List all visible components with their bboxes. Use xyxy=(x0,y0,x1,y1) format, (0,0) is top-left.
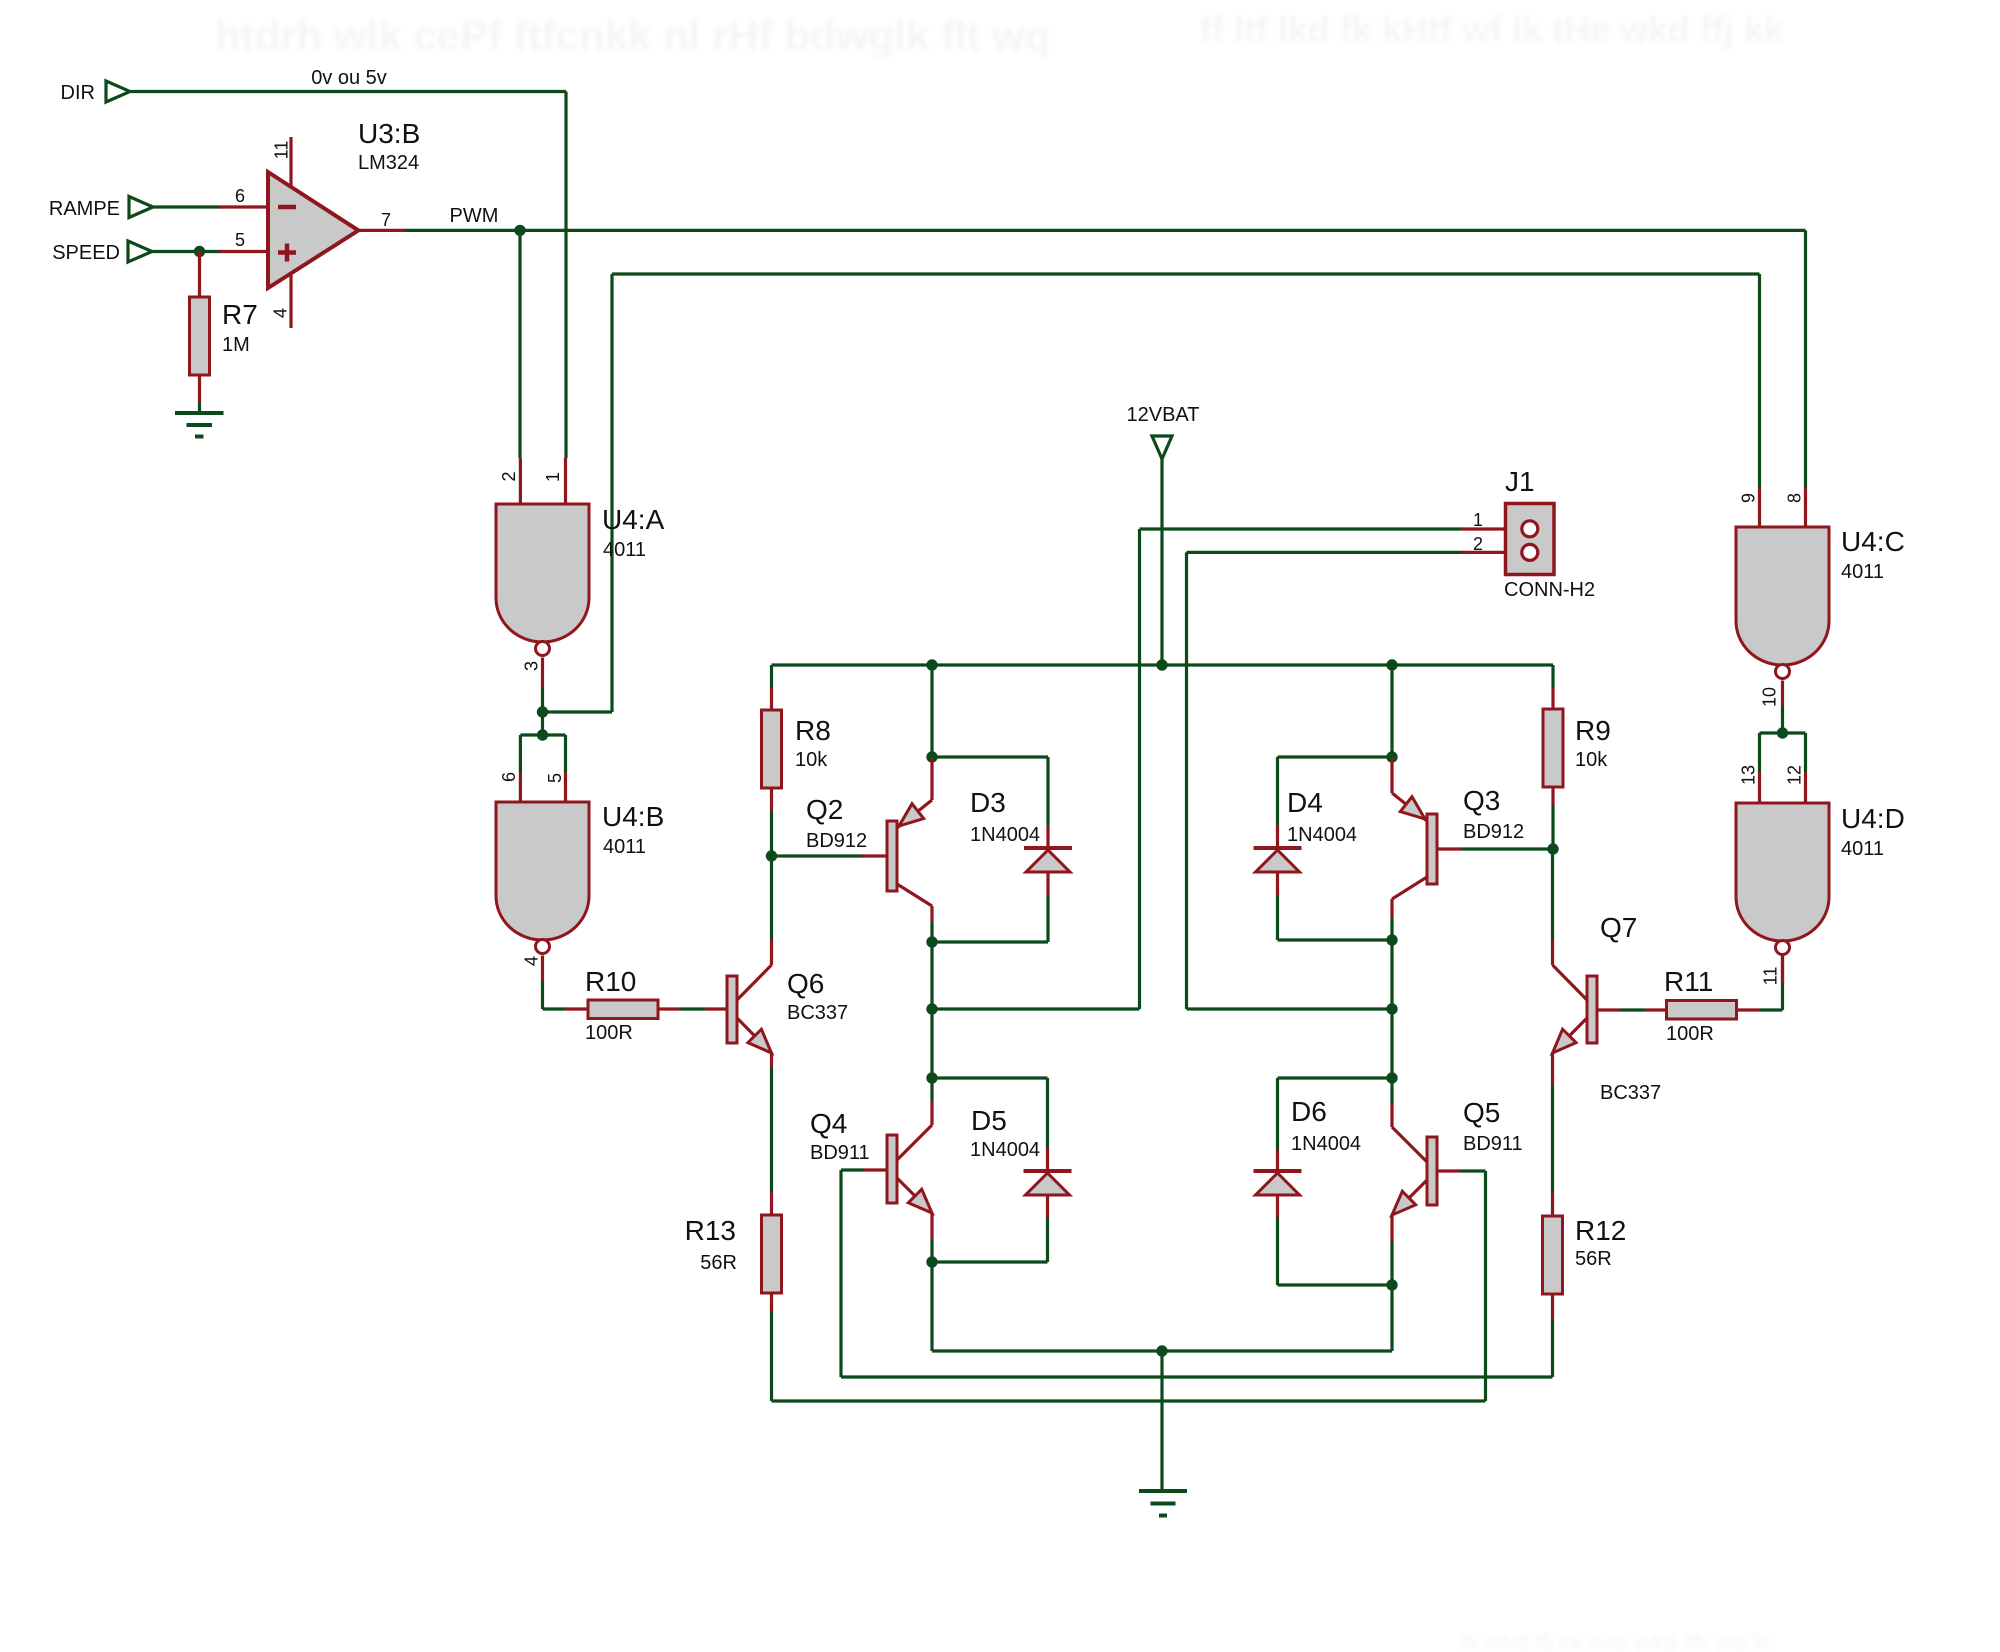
svg-text:R11: R11 xyxy=(1664,966,1713,997)
wire Q7 emitter to R12 xyxy=(1551,1053,1554,1192)
svg-text:U4:A: U4:A xyxy=(602,504,665,535)
svg-text:R13: R13 xyxy=(685,1215,736,1246)
wire ground stem xyxy=(1160,1351,1163,1489)
svg-text:D4: D4 xyxy=(1287,787,1323,818)
junction SPEED/R7 xyxy=(194,246,205,257)
resistor R10 xyxy=(566,966,658,1044)
wire Q3 collector node xyxy=(1390,918,1393,1078)
wire Q6 emitter to R13 xyxy=(770,1053,773,1191)
svg-text:R10: R10 xyxy=(585,966,636,997)
svg-text:J1: J1 xyxy=(1505,466,1535,497)
wire U4:A out to U4:B inputs xyxy=(520,712,565,772)
svg-text:Q3: Q3 xyxy=(1463,785,1500,816)
svg-text:2: 2 xyxy=(499,471,519,481)
wire U4:B pin 4 to R10 xyxy=(543,982,567,1009)
NAND gate U4:B xyxy=(496,772,664,982)
svg-text:Q4: Q4 xyxy=(810,1108,847,1139)
transistor Q2 (BD912) xyxy=(806,757,932,922)
transistor Q3 (BD912) xyxy=(1392,757,1524,918)
svg-text:ff ltf lkd fk kHtf wf lk tHe w: ff ltf lkd fk kHtf wf lk tHe wkd ffj kk xyxy=(1200,9,1785,50)
svg-text:Q5: Q5 xyxy=(1463,1097,1500,1128)
wire U4:C pin 10 to node xyxy=(1781,706,1784,733)
svg-text:BD912: BD912 xyxy=(1463,821,1524,843)
svg-text:DIR: DIR xyxy=(61,82,95,104)
svg-text:2: 2 xyxy=(1473,534,1483,554)
svg-text:4011: 4011 xyxy=(1841,838,1884,860)
svg-text:BD912: BD912 xyxy=(806,830,867,852)
connector J1 (CONN-H2) xyxy=(1461,466,1595,601)
svg-text:1N4004: 1N4004 xyxy=(1287,824,1357,846)
junction U4:D input tie xyxy=(1777,727,1788,738)
svg-text:56R: 56R xyxy=(1575,1248,1612,1270)
junction rail/Q3 emitter xyxy=(1386,659,1397,670)
resistor R8 xyxy=(762,665,831,856)
junction R9/Q3 base/Q7 collector xyxy=(1547,843,1558,854)
junction Q4 emitter/D5 xyxy=(926,1256,937,1267)
wire Q6 collector xyxy=(770,856,773,965)
svg-text:12: 12 xyxy=(1784,765,1804,785)
junction ground row xyxy=(1156,1345,1167,1356)
svg-text:htdrh wlk cePf ftfcnkk nl rHf: htdrh wlk cePf ftfcnkk nl rHf bdwglk flt… xyxy=(215,12,1050,59)
svg-text:CONN-H2: CONN-H2 xyxy=(1504,579,1595,601)
resistor R13 xyxy=(685,1191,782,1401)
svg-text:5: 5 xyxy=(235,230,245,250)
diode D6 (1N4004) xyxy=(1254,1078,1393,1285)
junction Q3/D4 bottom xyxy=(1386,934,1397,945)
junction D6 top tap xyxy=(1386,1072,1397,1083)
wire U4:C out to U4:D inputs xyxy=(1760,733,1806,772)
wire Q4 emitter to ground row xyxy=(930,1240,933,1351)
resistor R12 xyxy=(1543,1192,1627,1319)
ground (main) xyxy=(1139,1491,1187,1516)
svg-text:1: 1 xyxy=(1473,510,1483,530)
wire PWM to U4:A pin 2 xyxy=(518,230,521,458)
svg-text:1N4004: 1N4004 xyxy=(970,824,1040,846)
svg-text:U4:B: U4:B xyxy=(602,801,664,832)
wire row B (R12 to Q4 base) xyxy=(841,1319,1553,1377)
svg-text:4011: 4011 xyxy=(603,836,646,858)
diode D4 (1N4004) xyxy=(1254,757,1393,940)
svg-text:1N4004: 1N4004 xyxy=(1291,1133,1361,1155)
wire Q2 collector node xyxy=(930,922,933,1078)
svg-text:7: 7 xyxy=(381,210,391,230)
resistor R11 xyxy=(1664,966,1737,1045)
wire SPEED to pin 5 xyxy=(152,250,222,253)
svg-text:56R: 56R xyxy=(700,1252,737,1274)
svg-text:D3: D3 xyxy=(970,787,1006,818)
junction R8/Q2 base/Q6 collector xyxy=(766,850,777,861)
wire rail to Q2 emitter xyxy=(930,665,933,757)
junction left output node xyxy=(926,1003,937,1014)
junction Q5 emitter/D6 xyxy=(1386,1279,1397,1290)
svg-text:R8: R8 xyxy=(795,715,831,746)
svg-text:100R: 100R xyxy=(585,1022,633,1044)
wire U4:A pin 3 to node xyxy=(541,687,544,712)
wire Q7 collector xyxy=(1551,849,1554,965)
wire Q4 base xyxy=(841,1168,887,1171)
input flag SPEED xyxy=(52,241,152,264)
svg-text:Q7: Q7 xyxy=(1600,912,1637,943)
junction rail/Q2 emitter xyxy=(926,659,937,670)
svg-text:3: 3 xyxy=(521,661,541,671)
svg-text:4011: 4011 xyxy=(603,539,646,561)
svg-text:8: 8 xyxy=(1784,493,1804,503)
NAND gate U4:C xyxy=(1736,487,1905,707)
svg-text:BC337: BC337 xyxy=(1600,1082,1661,1104)
svg-text:12VBAT: 12VBAT xyxy=(1127,404,1200,426)
wire left output to J1 pin1 xyxy=(932,529,1461,1009)
NAND gate U4:D xyxy=(1736,765,1905,983)
svg-text:BD911: BD911 xyxy=(810,1142,870,1164)
svg-text:D5: D5 xyxy=(971,1105,1007,1136)
svg-text:10: 10 xyxy=(1759,687,1779,707)
junction U4:B input tie xyxy=(537,729,548,740)
transistor Q6 (BC337) xyxy=(727,965,848,1053)
label PWM xyxy=(450,205,499,227)
watermark (faint) xyxy=(215,9,1785,1652)
svg-text:R9: R9 xyxy=(1575,715,1611,746)
input flag DIR xyxy=(61,81,130,104)
svg-text:R7: R7 xyxy=(222,299,258,330)
svg-text:6: 6 xyxy=(499,772,519,782)
svg-text:1M: 1M xyxy=(222,334,250,356)
svg-text:D6: D6 xyxy=(1291,1096,1327,1127)
diode D3 (1N4004) xyxy=(932,757,1072,942)
wire RAMPE to pin 6 xyxy=(153,205,222,208)
svg-text:0v ou 5v: 0v ou 5v xyxy=(311,67,387,89)
junction D5 top tap xyxy=(926,1072,937,1083)
svg-text:R12: R12 xyxy=(1575,1215,1626,1246)
transistor Q5 (BD911) xyxy=(1392,1078,1523,1242)
svg-text:4: 4 xyxy=(270,308,290,318)
svg-text:4: 4 xyxy=(521,956,541,966)
svg-text:U4:D: U4:D xyxy=(1841,803,1905,834)
wire DIR net (0v ou 5v) xyxy=(130,67,566,458)
transistor Q4 (BD911) xyxy=(810,1078,932,1240)
svg-text:U4:C: U4:C xyxy=(1841,526,1905,557)
svg-text:10k: 10k xyxy=(795,749,828,771)
svg-text:11: 11 xyxy=(1760,967,1780,986)
input flag RAMPE xyxy=(49,197,153,221)
svg-text:10k: 10k xyxy=(1575,749,1608,771)
wire PWM net xyxy=(405,230,1806,487)
svg-text:11: 11 xyxy=(271,141,291,160)
resistor R7 xyxy=(190,252,258,415)
svg-text:1: 1 xyxy=(543,472,563,482)
svg-text:BD911: BD911 xyxy=(1463,1133,1523,1155)
wire right output to J1 pin2 xyxy=(1187,552,1462,1009)
junction D3 top tap xyxy=(926,751,937,762)
wire R11 to U4:D pin 11 xyxy=(1737,956,1783,1011)
junction U4:A output node xyxy=(537,706,548,717)
svg-text:1N4004: 1N4004 xyxy=(970,1139,1040,1161)
NAND gate U4:A xyxy=(496,458,665,687)
svg-text:Q2: Q2 xyxy=(806,794,843,825)
svg-text:6: 6 xyxy=(235,186,245,206)
op-amp U3:B xyxy=(220,118,420,328)
junction D4 top tap xyxy=(1386,751,1397,762)
wire Q3 base xyxy=(1437,847,1553,850)
wire Q5 base xyxy=(1437,1169,1486,1172)
resistor R9 xyxy=(1543,665,1611,849)
junction PWM/U4:A pin2 xyxy=(514,225,525,236)
wire rail to Q3 emitter xyxy=(1390,665,1393,757)
diode D5 (1N4004) xyxy=(932,1078,1072,1262)
ground (R7) xyxy=(175,413,224,437)
svg-text:U3:B: U3:B xyxy=(358,118,420,149)
svg-text:4011: 4011 xyxy=(1841,561,1884,583)
svg-text:SPEED: SPEED xyxy=(52,242,120,264)
wire Q5 emitter to ground row xyxy=(1390,1242,1393,1351)
svg-text:LM324: LM324 xyxy=(358,152,419,174)
wire U4:B-input feedback net xyxy=(543,274,1760,712)
svg-text:5: 5 xyxy=(545,773,565,783)
junction right output node xyxy=(1386,1003,1397,1014)
wire Q4 base to row B xyxy=(839,1170,842,1377)
svg-text:13: 13 xyxy=(1738,765,1758,785)
svg-text:PWM: PWM xyxy=(450,205,499,227)
power flag 12VBAT xyxy=(1127,404,1200,665)
transistor Q7 (BC337) xyxy=(1553,912,1662,1104)
svg-text:9: 9 xyxy=(1738,493,1758,503)
wire ground row A xyxy=(932,1349,1392,1352)
wire Q7 base to R11 xyxy=(1597,1008,1667,1011)
svg-text:fk wkd ffj kk tHe wkd ffk wd l: fk wkd ffj kk tHe wkd ffk wd lk xyxy=(1460,1630,1771,1652)
junction Q2/D3 bottom xyxy=(926,936,937,947)
svg-text:100R: 100R xyxy=(1666,1023,1714,1045)
svg-text:Q6: Q6 xyxy=(787,968,824,999)
svg-text:BC337: BC337 xyxy=(787,1002,848,1024)
wire Q2 base xyxy=(772,854,888,857)
power rail 12V xyxy=(772,663,1554,666)
wire row C (R13 to Q5 base) xyxy=(772,1171,1486,1401)
svg-text:RAMPE: RAMPE xyxy=(49,198,120,220)
wire R10 to Q6 base xyxy=(658,1007,727,1010)
junction rail/12VBAT xyxy=(1156,659,1167,670)
